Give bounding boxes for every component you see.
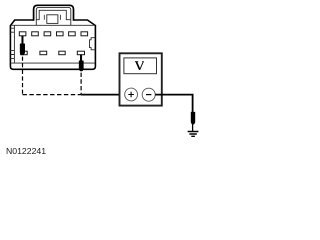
voltmeter - sign: [146, 94, 151, 96]
wire solid voltmeter - to corner and down: [155, 95, 192, 113]
pin cavity bottom row 1: [21, 51, 28, 55]
wire dashed from P1 down: [22, 57, 24, 95]
wire dashed horizontal P1 to junction: [23, 94, 82, 96]
figure number label: [6, 146, 46, 156]
voltmeter + sign: [128, 92, 134, 98]
connector latch outer: [34, 5, 74, 20]
voltmeter display window: [124, 58, 157, 74]
connector latch hat detail: [36, 10, 71, 19]
pin cavity top row 6: [81, 32, 88, 36]
voltmeter U1 box: [120, 53, 162, 105]
pin cavity bottom row 4: [77, 51, 84, 55]
connector J1 body outline: [10, 20, 95, 69]
ground symbol G1: [188, 132, 199, 137]
splice bar on ground wire: [191, 112, 195, 125]
connector latch beam side ticks: [44, 15, 60, 20]
voltmeter V label: [135, 62, 144, 70]
wire dashed from P2 down to junction: [80, 73, 82, 95]
voltmeter - terminal: [142, 88, 155, 101]
connector latch inner outline: [36, 7, 71, 25]
pin cavity bottom row 2: [40, 51, 47, 55]
connector inner bottom line: [11, 62, 95, 64]
probe pin P2 (right, filled): [79, 55, 83, 71]
connector left ladder wall: [13, 25, 15, 63]
pin cavity top row 1: [19, 32, 26, 36]
connector right keying notch: [90, 38, 96, 50]
pin cavity top row 4: [57, 32, 64, 36]
wire solid junction to voltmeter +: [81, 94, 125, 96]
probe pin P1 (left, filled): [20, 36, 25, 55]
pin cavity bottom row 3: [59, 51, 65, 55]
pin cavity top row 2: [32, 32, 39, 36]
connector inner top line: [11, 24, 95, 26]
connector left ladder rungs: [10, 28, 14, 58]
connector latch beam: [47, 15, 58, 24]
wire splice to ground: [192, 124, 194, 131]
voltmeter + terminal: [125, 88, 138, 101]
pin cavity top row 5: [69, 32, 76, 36]
pin cavity top row 3: [44, 32, 51, 36]
